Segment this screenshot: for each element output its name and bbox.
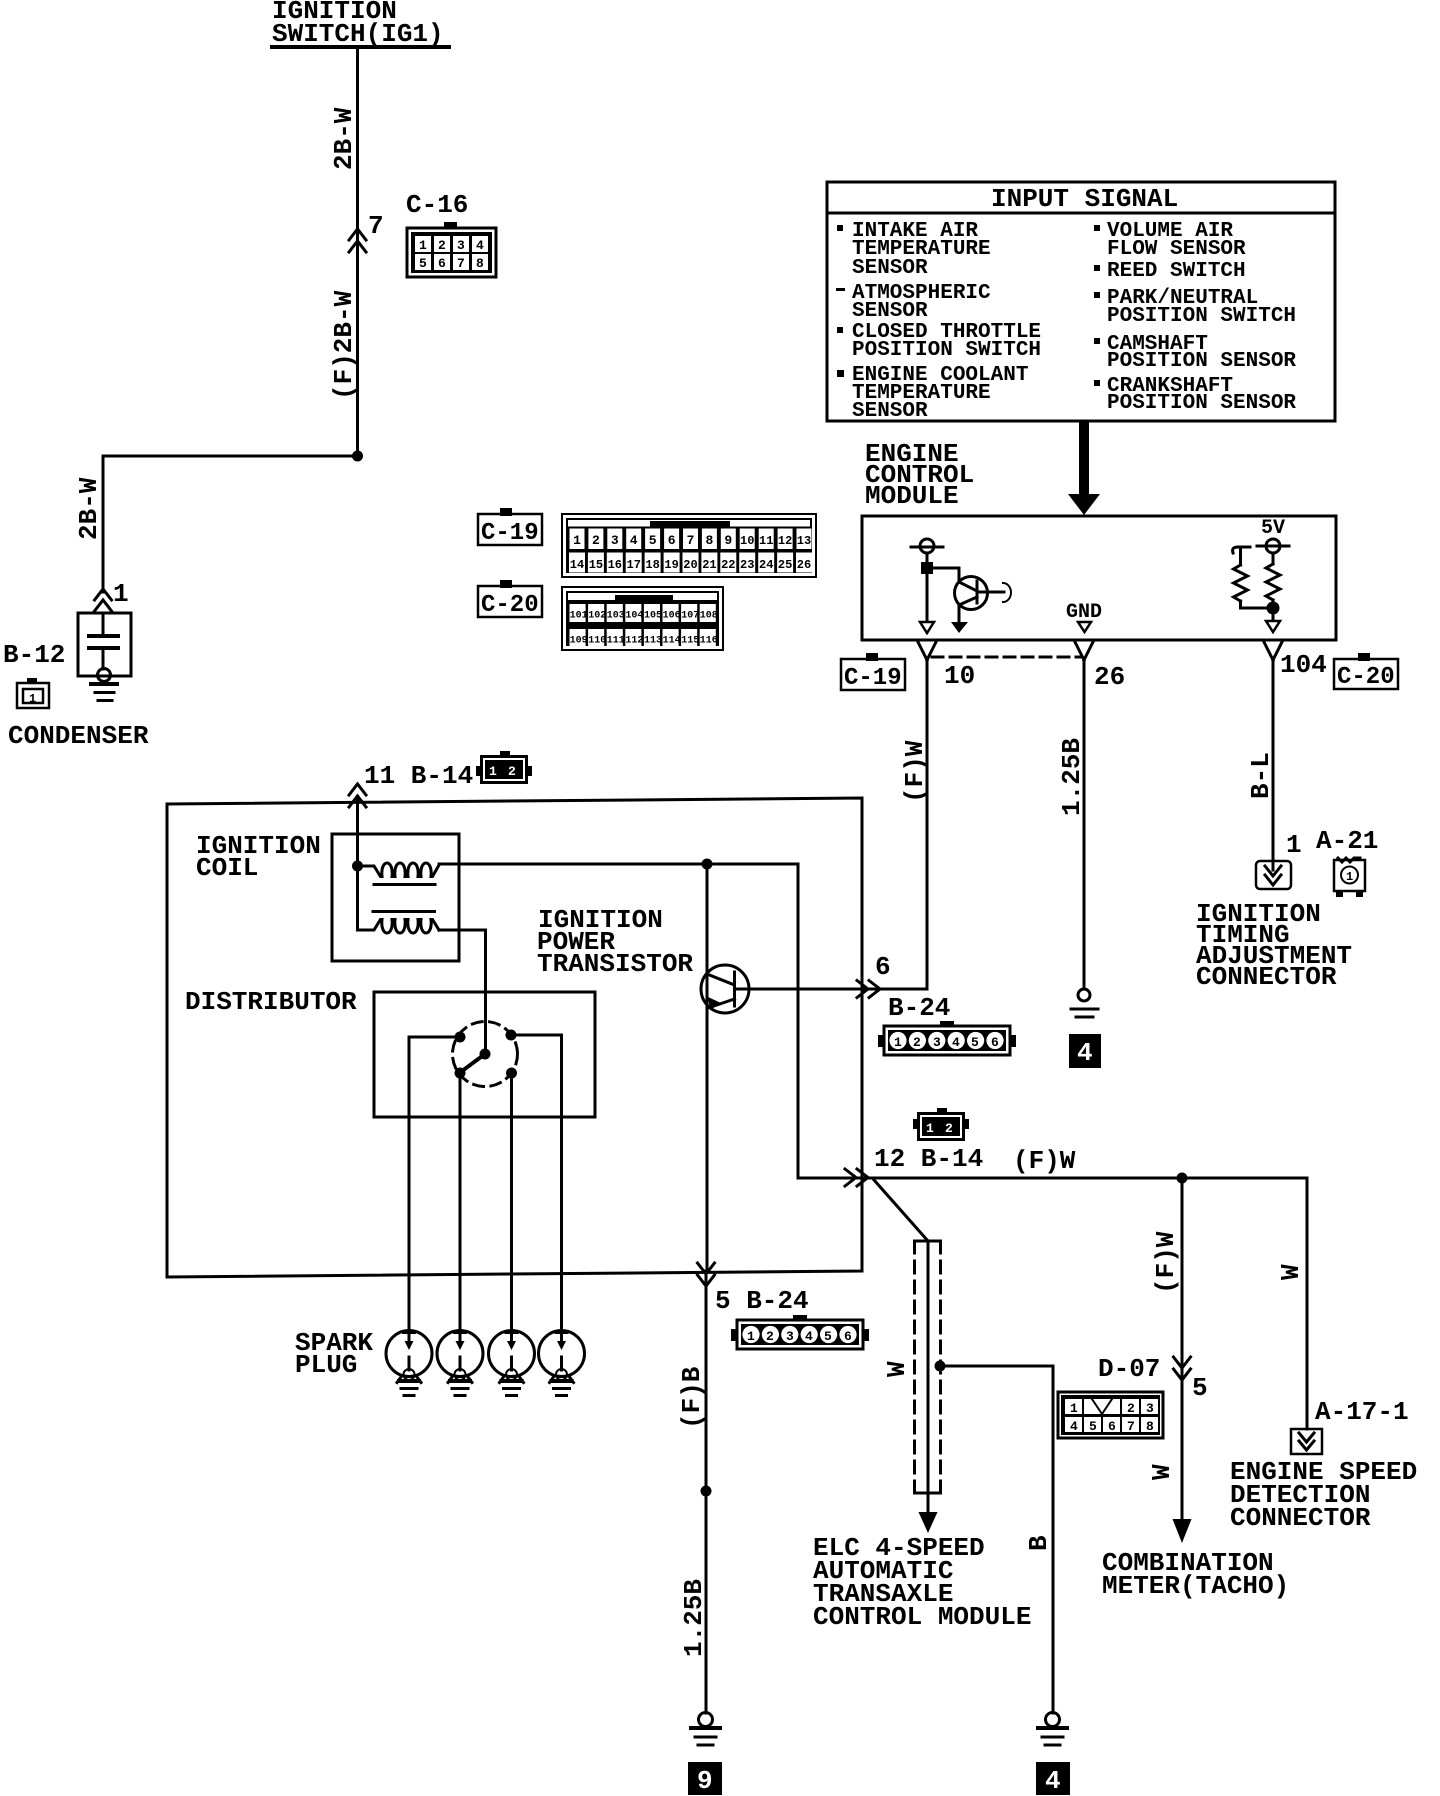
wire 2B-W from ignition switch down to junction [356,49,359,456]
wire corner to box edge (F)W [798,1177,862,1180]
svg-text:A-21: A-21 [1316,826,1378,856]
svg-text:8: 8 [476,256,484,271]
distributor rotor center dot [480,1049,491,1060]
svg-text:4: 4 [805,1329,813,1344]
svg-text:C-19: C-19 [481,520,539,547]
wire into coil primary [356,800,359,930]
condenser case ground circle [98,669,111,682]
ECM internal wire 5V to resistor [1272,553,1275,564]
condenser C1 bottom plate [89,646,118,650]
wire ECM pin 26 down to ground [1083,660,1086,989]
svg-text:116: 116 [700,636,718,647]
ECM internal resistor R2 (right) [1266,564,1280,600]
svg-text:10: 10 [740,534,754,548]
svg-text:6: 6 [991,1035,999,1050]
svg-text:(F)W: (F)W [1151,1231,1181,1294]
wire junction down through power transistor to box bottom [706,864,709,1271]
svg-text:9: 9 [697,1766,713,1796]
svg-text:CONNECTOR: CONNECTOR [1196,962,1337,992]
ECM internal wire junction to output pin triangle [926,574,929,621]
svg-text:1: 1 [489,764,497,779]
connector C-16 pin 7 crossing chevron [349,229,366,252]
SPARK PLUG label [295,1328,373,1380]
ground symbol (pin 26 wire) [1071,1009,1098,1017]
svg-text:TRANSISTOR: TRANSISTOR [537,949,693,979]
svg-text:23: 23 [740,558,754,572]
node IGNITION SWITCH(IG1) label [272,0,444,49]
svg-text:5V: 5V [1261,517,1285,540]
svg-text:SWITCH(IG1): SWITCH(IG1) [272,19,444,49]
svg-text:2: 2 [438,238,446,253]
svg-text:26: 26 [1094,662,1125,692]
svg-text:B: B [1024,1535,1054,1551]
svg-text:104: 104 [1280,650,1327,680]
svg-text:8: 8 [1146,1419,1154,1434]
svg-text:1: 1 [926,1121,934,1136]
svg-text:101: 101 [570,611,588,622]
junction dot on (F)W wire [1177,1173,1188,1184]
wire 2B-W down to condenser [102,456,105,592]
svg-text:5: 5 [971,1035,979,1050]
svg-text:C-16: C-16 [406,190,468,220]
svg-text:24: 24 [759,558,773,572]
connector B-24 pin 6 crossing chevron [857,981,880,998]
svg-text:A-17-1: A-17-1 [1315,1397,1409,1427]
ground reference box 9 [688,1762,722,1796]
svg-text:14: 14 [570,558,584,572]
svg-text:9: 9 [724,533,732,548]
ECM internal wire junction to transistor base [927,568,959,582]
svg-text:114: 114 [663,636,681,647]
svg-text:B-L: B-L [1246,752,1276,799]
IGNITION TIMING ADJUSTMENT CONNECTOR label [1196,899,1352,992]
arrowhead to combination meter [1173,1519,1192,1543]
svg-text:CONDENSER: CONDENSER [8,721,149,751]
svg-text:SENSOR: SENSOR [852,400,928,423]
svg-text:7: 7 [368,211,384,241]
ECM GND pin triangle [1078,622,1091,632]
wire spark plug 1 [409,1037,460,1331]
ECM internal emitter arrow (internal ground) [951,622,968,633]
IGNITION POWER TRANSISTOR label [537,905,693,979]
svg-text:13: 13 [797,534,811,548]
svg-text:102: 102 [588,611,606,622]
ECM internal wire supply to junction [926,553,929,568]
svg-text:DISTRIBUTOR: DISTRIBUTOR [185,987,357,1017]
svg-text:103: 103 [607,611,625,622]
connector D-07 pin diagram [1058,1392,1163,1438]
connector B-24 icon (pin 6) [878,1021,1016,1055]
svg-text:6: 6 [668,533,676,548]
svg-text:5 B-24: 5 B-24 [715,1286,809,1316]
svg-text:8: 8 [706,533,714,548]
svg-text:FLOW SENSOR: FLOW SENSOR [1107,238,1246,261]
svg-text:C-19: C-19 [844,665,902,692]
ignition coil primary winding [362,863,439,877]
wire coil primary to transistor junction [439,863,798,866]
ECM internal 5V terminal circle [1257,539,1289,553]
junction dot at ignition power transistor branch [702,859,713,870]
svg-text:107: 107 [681,611,699,622]
svg-text:10: 10 [944,661,975,691]
svg-text:1: 1 [1286,830,1302,860]
ECM internal output triangle (pin 10 driver) [920,622,934,633]
svg-text:20: 20 [683,558,697,572]
svg-text:METER(TACHO): METER(TACHO) [1102,1571,1289,1601]
spark plug 4 [539,1331,585,1396]
junction dot shield to ground branch [935,1361,946,1372]
svg-text:3: 3 [933,1035,941,1050]
svg-text:111: 111 [607,636,625,647]
INPUT SIGNAL title divider [827,212,1335,215]
junction dot coil primary top [352,861,363,872]
svg-text:REED SWITCH: REED SWITCH [1107,260,1246,283]
svg-text:B-24: B-24 [888,993,950,1023]
ECM pin 104 fork [1264,642,1282,660]
ground circle (shield branch) [1046,1713,1060,1727]
svg-text:GND: GND [1066,601,1102,624]
connector C-20 pin diagram [562,587,723,650]
svg-text:1: 1 [894,1035,902,1050]
svg-text:3: 3 [611,533,619,548]
connector D-07 pin 5 crossing chevron [1174,1357,1191,1380]
connector B-12 pin 1 crossing chevron [95,589,112,611]
ignition coil secondary winding [358,920,440,934]
svg-text:SENSOR: SENSOR [852,257,928,280]
ECM block box [862,516,1336,640]
svg-text:115: 115 [681,636,699,647]
connector C-19 tag (at ECM) [841,653,905,692]
svg-text:1: 1 [29,692,36,706]
svg-text:7: 7 [687,533,695,548]
svg-text:SENSOR: SENSOR [852,300,928,323]
ECM internal resistor R1 (left) [1234,565,1248,601]
ground circle (pin 26 wire) [1078,989,1090,1001]
ECM internal transistor Q1 [955,577,1005,610]
wire coil secondary to distributor rotor [439,930,486,1051]
svg-text:12 B-14: 12 B-14 [874,1144,983,1174]
svg-text:6: 6 [844,1329,852,1344]
wire (F)B from big box down [705,1271,708,1713]
svg-text:15: 15 [589,558,603,572]
svg-text:4: 4 [1070,1419,1078,1434]
distributor rotor dashed circle [453,1022,518,1087]
connector B-14 icon (pin 12) [913,1108,969,1141]
condenser C1 bottom lead [102,648,105,669]
svg-text:105: 105 [644,611,662,622]
svg-text:5: 5 [649,533,657,548]
spark plug 3 [489,1331,535,1396]
wire to combination meter [1181,1178,1184,1519]
svg-text:1: 1 [1070,1401,1078,1416]
svg-text:3: 3 [457,238,465,253]
connector B-14 pin 12 crossing chevron [845,1169,868,1186]
ignition timing adjustment connector terminal box with chevrons [1256,861,1291,889]
svg-text:5: 5 [1089,1419,1097,1434]
svg-text:5: 5 [1192,1373,1208,1403]
svg-text:4: 4 [1077,1038,1093,1068]
ECM internal collector hook (connection continues) [1003,583,1011,602]
svg-text:106: 106 [663,611,681,622]
wire spark plug 3 [510,1073,513,1331]
ECM internal wire R2 bottom to junction [1272,600,1275,619]
wire spark plug 4 [511,1035,562,1331]
thick arrow from input signal block into ECM [1068,421,1100,515]
svg-text:11 B-14: 11 B-14 [364,761,473,791]
svg-text:22: 22 [721,558,735,572]
svg-text:W: W [1147,1464,1177,1480]
distributor assembly outer box [167,798,862,1277]
svg-text:(F)2B-W: (F)2B-W [329,290,359,400]
connector C-19 pin diagram [562,514,816,577]
svg-text:COIL: COIL [196,853,258,883]
svg-text:4: 4 [476,238,484,253]
svg-text:2: 2 [913,1035,921,1050]
svg-text:W: W [1276,1264,1306,1280]
spark plug 2 [437,1331,483,1396]
wire branch to condenser horizontal [103,455,358,458]
svg-text:110: 110 [588,636,606,647]
distributor component box [374,992,595,1117]
condenser C1 top lead [102,613,105,634]
svg-text:2: 2 [945,1121,953,1136]
connector C-20 tag (at ECM) [1334,653,1398,691]
svg-text:4: 4 [952,1035,960,1050]
svg-text:4: 4 [630,533,638,548]
connector B-14 pin 11 crossing chevron [349,784,366,807]
connector B-14 icon (top) [476,751,532,784]
svg-text:26: 26 [797,558,811,572]
svg-text:POSITION SENSOR: POSITION SENSOR [1107,350,1296,373]
svg-text:PLUG: PLUG [295,1350,357,1380]
condenser C1 top plate [89,634,118,638]
splice junction dot on (F)B wire [701,1486,712,1497]
ECM internal left branch hook lead [1233,547,1250,553]
svg-text:2: 2 [766,1329,774,1344]
svg-text:112: 112 [625,636,643,647]
COMBINATION METER(TACHO) label [1102,1548,1289,1601]
wire spark plug 2 [459,1073,462,1331]
node IGNITION SWITCH(IG1) underline bar [270,45,451,49]
ECM internal transistor emitter wire [958,605,961,622]
ground circle (left bottom) [699,1713,713,1727]
ignition coil core lines [374,883,435,886]
ENGINE SPEED DETECTION CONNECTOR label [1230,1457,1417,1533]
svg-text:B-12: B-12 [3,640,65,670]
INPUT SIGNAL list left column [836,220,1041,423]
ignition power transistor Q2 [701,965,927,1013]
diagonal wire into shielded cable [874,1180,928,1241]
svg-text:CONNECTOR: CONNECTOR [1230,1503,1371,1533]
wire ECM pin 10 down [926,660,929,989]
IGNITION COIL label [196,831,321,883]
svg-text:2: 2 [1127,1401,1135,1416]
svg-text:109: 109 [570,636,588,647]
svg-text:POSITION SWITCH: POSITION SWITCH [852,339,1041,362]
connector C-20 label tag [478,580,542,619]
svg-text:W: W [882,1361,912,1377]
svg-text:113: 113 [644,636,662,647]
connector C-16 pin diagram [407,222,496,277]
svg-text:INPUT SIGNAL: INPUT SIGNAL [991,184,1178,214]
ECM pin 10 fork [918,642,936,660]
svg-text:D-07: D-07 [1098,1354,1160,1384]
svg-text:108: 108 [700,611,718,622]
svg-text:1.25B: 1.25B [1057,738,1087,816]
svg-text:3: 3 [786,1329,794,1344]
svg-text:CONTROL MODULE: CONTROL MODULE [813,1602,1031,1632]
svg-text:(F)W: (F)W [1013,1146,1076,1176]
connector B-24 icon (pin 5) [731,1315,869,1349]
connector B-24 pin 5 crossing chevron [698,1263,715,1286]
junction dot at condenser branch [352,451,363,462]
svg-text:6: 6 [875,952,891,982]
svg-text:3: 3 [1146,1401,1154,1416]
svg-text:6: 6 [438,256,446,271]
svg-text:POSITION SWITCH: POSITION SWITCH [1107,305,1296,328]
svg-text:1.25B: 1.25B [679,1579,709,1657]
svg-text:104: 104 [625,611,643,622]
svg-text:5: 5 [419,256,427,271]
svg-text:2: 2 [508,764,516,779]
svg-text:7: 7 [457,256,465,271]
ELC 4-SPEED AUTOMATIC TRANSAXLE CONTROL MODULE label [813,1533,1031,1632]
svg-text:5: 5 [824,1329,832,1344]
ENGINE CONTROL MODULE label [865,439,974,511]
ECM output triangle pin 104 [1266,621,1280,632]
ECM internal wire hook to resistor R1 [1239,547,1242,565]
svg-text:12: 12 [778,534,792,548]
connector C-19 label tag [478,508,542,547]
svg-text:C-20: C-20 [481,592,539,619]
svg-text:2: 2 [592,533,600,548]
shielded cable core wire [927,1241,930,1512]
svg-text:2B-W: 2B-W [329,107,359,170]
svg-text:19: 19 [664,558,678,572]
svg-text:MODULE: MODULE [865,481,959,511]
wire to engine speed detection connector [1306,1178,1309,1429]
INPUT SIGNAL list right column [1094,220,1296,415]
svg-text:25: 25 [778,558,792,572]
engine speed detection connector terminal box with chevrons [1291,1429,1322,1454]
ignition coil component box [332,834,459,961]
INPUT SIGNAL block box [827,182,1335,421]
svg-text:18: 18 [645,558,659,572]
ground symbol (shield branch) [1038,1728,1067,1745]
svg-text:(F)B: (F)B [677,1366,707,1429]
distributor rotor arm [462,1054,485,1071]
svg-text:1: 1 [573,533,581,548]
svg-text:16: 16 [608,558,622,572]
wire (F)W horizontal to right [862,1177,1307,1180]
svg-text:POSITION SENSOR: POSITION SENSOR [1107,392,1296,415]
ground reference box 4 [1069,1034,1101,1068]
condenser C1 component box [78,613,131,676]
ECM pin 26 fork [1075,642,1093,660]
svg-text:1: 1 [747,1329,755,1344]
ECM internal supply terminal circle (left) [911,539,943,553]
wire top branch to corner [797,864,800,1178]
distributor contact dots [455,1032,466,1043]
svg-text:6: 6 [1108,1419,1116,1434]
svg-text:21: 21 [702,558,716,572]
dashed connector line between pin 10 and pin 26 [932,656,1080,659]
connector B-12 icon [17,678,49,708]
ground reference box 4 (bottom) [1036,1762,1070,1796]
svg-text:1: 1 [113,579,129,609]
svg-text:1: 1 [1346,870,1353,884]
ground symbol (left bottom) [691,1728,720,1745]
svg-text:2B-W: 2B-W [74,477,104,540]
ECM internal junction dot [921,562,933,574]
ECM internal junction dot (resistors) [1267,602,1280,615]
spark plug 1 [386,1331,432,1396]
svg-text:1: 1 [419,238,427,253]
ground symbol under condenser [91,684,117,701]
svg-text:7: 7 [1127,1419,1135,1434]
ECM internal wire R1 bottom to junction [1241,601,1274,608]
svg-text:(F)W: (F)W [900,740,930,803]
connector A-21 icon [1334,858,1365,897]
svg-text:C-20: C-20 [1337,664,1395,691]
svg-text:17: 17 [627,558,641,572]
wire shield ground branch [940,1366,1053,1713]
svg-text:11: 11 [759,534,773,548]
wire ECM pin 104 down [1272,660,1275,861]
arrowhead to ELC module [919,1512,938,1533]
shielded cable dashed shield [915,1241,941,1493]
svg-text:4: 4 [1045,1766,1061,1796]
